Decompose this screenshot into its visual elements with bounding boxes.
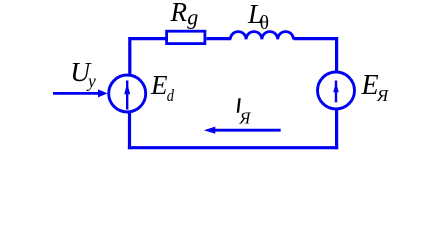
svg-text:θ: θ: [260, 13, 269, 34]
svg-text:Я: Я: [376, 86, 389, 105]
svg-text:R: R: [170, 0, 188, 27]
svg-text:Я: Я: [239, 109, 252, 128]
svg-text:d: d: [167, 86, 175, 105]
svg-text:у: у: [86, 71, 96, 91]
svg-text:E: E: [361, 70, 379, 101]
svg-text:E: E: [150, 70, 168, 100]
svg-text:g: g: [187, 4, 198, 29]
